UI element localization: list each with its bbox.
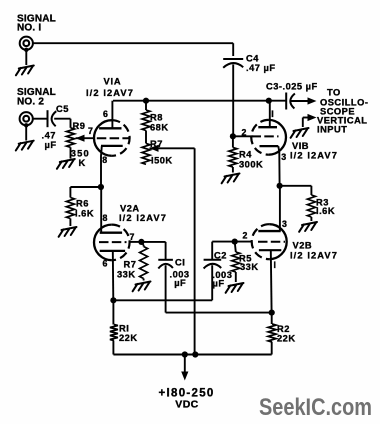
svg-text:VIA: VIA	[104, 77, 122, 87]
svg-text:I: I	[271, 109, 274, 119]
svg-text:2: 2	[243, 231, 248, 241]
svg-text:I/2 I2AV7: I/2 I2AV7	[119, 213, 167, 223]
svg-text:I: I	[274, 260, 277, 270]
svg-text:7: 7	[130, 232, 135, 242]
svg-text:C5: C5	[56, 104, 69, 114]
svg-text:22K: 22K	[119, 333, 138, 343]
svg-text:C3-.025 µF: C3-.025 µF	[266, 82, 318, 92]
svg-text:.47: .47	[42, 131, 56, 141]
svg-text:3: 3	[281, 152, 286, 162]
svg-text:2: 2	[242, 128, 247, 138]
svg-text:6: 6	[103, 109, 108, 119]
svg-text:RI: RI	[119, 324, 129, 334]
svg-text:µF: µF	[213, 278, 225, 288]
svg-text:R7: R7	[124, 260, 137, 270]
svg-text:7: 7	[88, 126, 93, 136]
svg-text:C2: C2	[214, 251, 227, 261]
svg-text:I.6K: I.6K	[75, 209, 94, 219]
svg-text:I.6K: I.6K	[316, 206, 335, 216]
svg-text:6: 6	[103, 258, 108, 268]
svg-text:.47 µF: .47 µF	[246, 63, 276, 73]
svg-text:CI: CI	[175, 258, 185, 268]
svg-text:R7: R7	[150, 139, 163, 149]
svg-text:TO: TO	[327, 88, 341, 98]
svg-text:INPUT: INPUT	[317, 125, 347, 135]
svg-text:V2A: V2A	[120, 204, 140, 214]
svg-text:I50K: I50K	[151, 156, 173, 166]
svg-text:R8: R8	[150, 113, 163, 123]
svg-text:VDC: VDC	[175, 399, 198, 411]
svg-text:+I80-250: +I80-250	[159, 387, 215, 399]
svg-text:R2: R2	[277, 324, 290, 334]
svg-text:I/2 I2AV7: I/2 I2AV7	[86, 88, 134, 98]
svg-text:VIB: VIB	[292, 141, 309, 151]
svg-text:350: 350	[71, 149, 90, 159]
svg-text:SeekIC.com: SeekIC.com	[259, 394, 372, 421]
svg-text:C4: C4	[246, 54, 259, 64]
svg-text:R4: R4	[239, 150, 252, 160]
svg-text:3: 3	[282, 219, 287, 229]
svg-text:K: K	[79, 158, 86, 168]
svg-text:33K: 33K	[117, 270, 136, 280]
svg-text:R6: R6	[76, 199, 89, 209]
svg-text:V2B: V2B	[293, 241, 313, 251]
svg-text:µF: µF	[174, 278, 186, 288]
svg-text:NO. 2: NO. 2	[17, 96, 44, 107]
svg-text:300K: 300K	[239, 160, 263, 170]
svg-text:NO. I: NO. I	[17, 22, 41, 33]
svg-text:I/2 I2AV7: I/2 I2AV7	[290, 251, 338, 261]
svg-text:µF: µF	[45, 140, 57, 150]
svg-text:33K: 33K	[240, 262, 259, 272]
svg-text:68K: 68K	[150, 123, 169, 133]
svg-text:22K: 22K	[277, 334, 296, 344]
svg-text:I/2 I2AV7: I/2 I2AV7	[290, 151, 338, 161]
svg-text:R9: R9	[73, 121, 86, 131]
svg-text:8: 8	[103, 213, 108, 223]
svg-text:8: 8	[102, 155, 107, 165]
